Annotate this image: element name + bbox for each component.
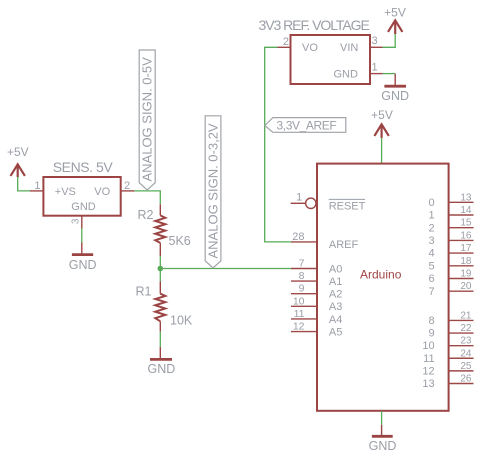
svg-text:22: 22 — [460, 323, 472, 334]
svg-text:4: 4 — [428, 248, 434, 260]
svg-text:GND: GND — [334, 69, 359, 81]
svg-text:RESET: RESET — [329, 201, 366, 213]
svg-text:12: 12 — [293, 321, 305, 333]
svg-text:11: 11 — [423, 353, 434, 365]
resistor R1 — [155, 281, 165, 331]
svg-text:+5V: +5V — [371, 108, 393, 122]
svg-text:25: 25 — [460, 361, 472, 372]
wire: U1 pin3 to ground — [81, 229, 83, 243]
wire: U2 pin1 to ground — [383, 73, 396, 75]
ground symbol (under R1) — [150, 347, 172, 359]
svg-text:11: 11 — [294, 308, 305, 320]
U1 pin 1 stub — [30, 190, 43, 192]
svg-text:+5V: +5V — [7, 145, 29, 159]
svg-text:ANALOG SIGN. 0-5V: ANALOG SIGN. 0-5V — [140, 57, 155, 182]
svg-text:VO: VO — [94, 186, 110, 198]
svg-text:GND: GND — [148, 362, 176, 376]
wire: R1 bottom to ground — [159, 331, 161, 347]
svg-text:A5: A5 — [329, 327, 342, 339]
svg-text:R1: R1 — [136, 285, 152, 299]
svg-text:GND: GND — [69, 258, 97, 272]
svg-text:3: 3 — [372, 35, 378, 47]
svg-text:9: 9 — [299, 283, 305, 295]
svg-text:R2: R2 — [138, 208, 154, 222]
U3 AREF pin stub — [291, 241, 317, 243]
svg-text:1: 1 — [296, 191, 302, 203]
U2 pin 1 stub — [370, 73, 383, 75]
U1 pin 3 stub — [81, 216, 83, 229]
svg-text:8: 8 — [299, 270, 305, 282]
+5V supply symbol (left) — [11, 164, 25, 177]
svg-text:18: 18 — [460, 256, 472, 267]
U2 pin 2 stub — [278, 46, 291, 48]
+5V supply symbol (above Arduino) — [374, 124, 388, 138]
svg-text:17: 17 — [460, 243, 472, 254]
svg-text:SENS. 5V: SENS. 5V — [53, 159, 114, 175]
svg-text:6: 6 — [428, 273, 434, 285]
IC U1 body — [43, 177, 120, 216]
U3 digital pin numbers 13-20 — [460, 192, 472, 292]
net 3,3V_AREF wire: U2 pin2 down to AREF — [265, 47, 291, 242]
label flag ANALOG SIGN. 0-5V — [139, 50, 155, 190]
U3 pin names 0-7 — [428, 197, 434, 298]
U3 analog pin stubs A0-A5 (pins 7-12) — [291, 269, 317, 332]
svg-text:7: 7 — [428, 286, 434, 298]
U3 digital pin stubs 8-13 (right, pins 21-26) — [449, 320, 474, 383]
svg-text:13: 13 — [422, 378, 434, 390]
svg-text:9: 9 — [428, 328, 434, 340]
IC U2 body — [291, 35, 371, 84]
svg-text:1: 1 — [34, 180, 40, 192]
U3 digital pin numbers 21-26 — [460, 310, 472, 384]
svg-text:13: 13 — [460, 192, 472, 203]
svg-text:8: 8 — [428, 315, 434, 327]
U3 analog pin numbers 7-12 — [293, 258, 305, 333]
svg-text:A1: A1 — [329, 276, 342, 288]
IC U3 Arduino body — [317, 164, 449, 411]
svg-text:2: 2 — [283, 36, 289, 48]
svg-text:12: 12 — [422, 365, 434, 377]
svg-text:20: 20 — [460, 281, 472, 292]
svg-text:15: 15 — [460, 218, 472, 229]
svg-text:A3: A3 — [329, 301, 342, 313]
U2 pin 3 stub — [370, 46, 383, 48]
svg-text:2: 2 — [124, 180, 130, 192]
ground symbol (under Arduino) — [372, 425, 393, 437]
svg-text:VIN: VIN — [340, 42, 358, 54]
wire: junction to R1 top — [159, 269, 161, 282]
svg-text:AREF: AREF — [329, 239, 359, 251]
svg-text:5: 5 — [428, 260, 434, 272]
svg-text:16: 16 — [460, 230, 472, 241]
svg-text:2: 2 — [428, 222, 434, 234]
resistor R2 — [155, 204, 165, 256]
svg-text:VO: VO — [302, 42, 318, 54]
svg-text:GND: GND — [71, 201, 96, 213]
wire: U1 pin2 to R2 top (net ANALOG SIGN. 0-5V) — [134, 191, 160, 204]
svg-text:3V3 REF. VOLTAGE: 3V3 REF. VOLTAGE — [259, 17, 370, 33]
svg-text:A0: A0 — [329, 263, 342, 275]
svg-text:21: 21 — [460, 310, 472, 321]
svg-text:ANALOG SIGN. 0-3,2V: ANALOG SIGN. 0-3,2V — [206, 123, 221, 258]
U3 RESET pin stub with bubble — [291, 198, 316, 208]
svg-text:+5V: +5V — [384, 6, 406, 20]
svg-text:A4: A4 — [329, 314, 342, 326]
svg-text:28: 28 — [292, 231, 304, 243]
U3 digital pin stubs 0-7 (right, pins 13-20) — [449, 202, 474, 291]
svg-text:Arduino: Arduino — [360, 268, 402, 282]
label flag ANALOG SIGN. 0-3,2V — [205, 116, 221, 268]
svg-text:3,3V_AREF: 3,3V_AREF — [277, 119, 337, 133]
svg-text:5K6: 5K6 — [169, 234, 191, 248]
U3 pin names 8-13 — [422, 315, 434, 390]
wire: U2 pin3 to +5V — [383, 34, 396, 47]
svg-text:1: 1 — [428, 210, 434, 222]
svg-text:10: 10 — [422, 340, 434, 352]
svg-text:10: 10 — [293, 295, 305, 307]
U1 pin 2 stub — [121, 190, 135, 192]
wire: R2 bottom to junction — [159, 256, 161, 269]
svg-text:0: 0 — [428, 197, 434, 209]
svg-text:3: 3 — [428, 235, 434, 247]
ground symbol (top right) — [384, 74, 406, 87]
wire: junction to Arduino A0 (net ANALOG SIGN. 0-3,2V) — [160, 268, 291, 270]
svg-text:23: 23 — [460, 336, 472, 347]
svg-text:A2: A2 — [329, 289, 342, 301]
svg-text:3: 3 — [70, 218, 81, 224]
wire: Arduino bottom to ground — [381, 411, 383, 425]
U3 pin names A0-A5 — [329, 263, 342, 338]
junction node — [158, 266, 164, 272]
svg-text:14: 14 — [460, 205, 472, 216]
svg-text:10K: 10K — [170, 313, 193, 327]
svg-text:GND: GND — [369, 439, 397, 453]
svg-text:7: 7 — [299, 258, 305, 270]
svg-text:24: 24 — [460, 348, 472, 359]
svg-text:1: 1 — [372, 62, 378, 74]
wire: +5V to Arduino top — [381, 138, 383, 164]
svg-text:26: 26 — [460, 374, 472, 385]
wire: +5V to SENS pin1 — [18, 177, 30, 191]
svg-text:+VS: +VS — [55, 186, 76, 198]
svg-text:GND: GND — [381, 89, 409, 103]
label flag 3,3V_AREF — [265, 118, 346, 133]
svg-text:19: 19 — [460, 269, 472, 280]
ground symbol (under U1) — [72, 243, 93, 255]
+5V supply symbol (top right) — [388, 20, 402, 34]
